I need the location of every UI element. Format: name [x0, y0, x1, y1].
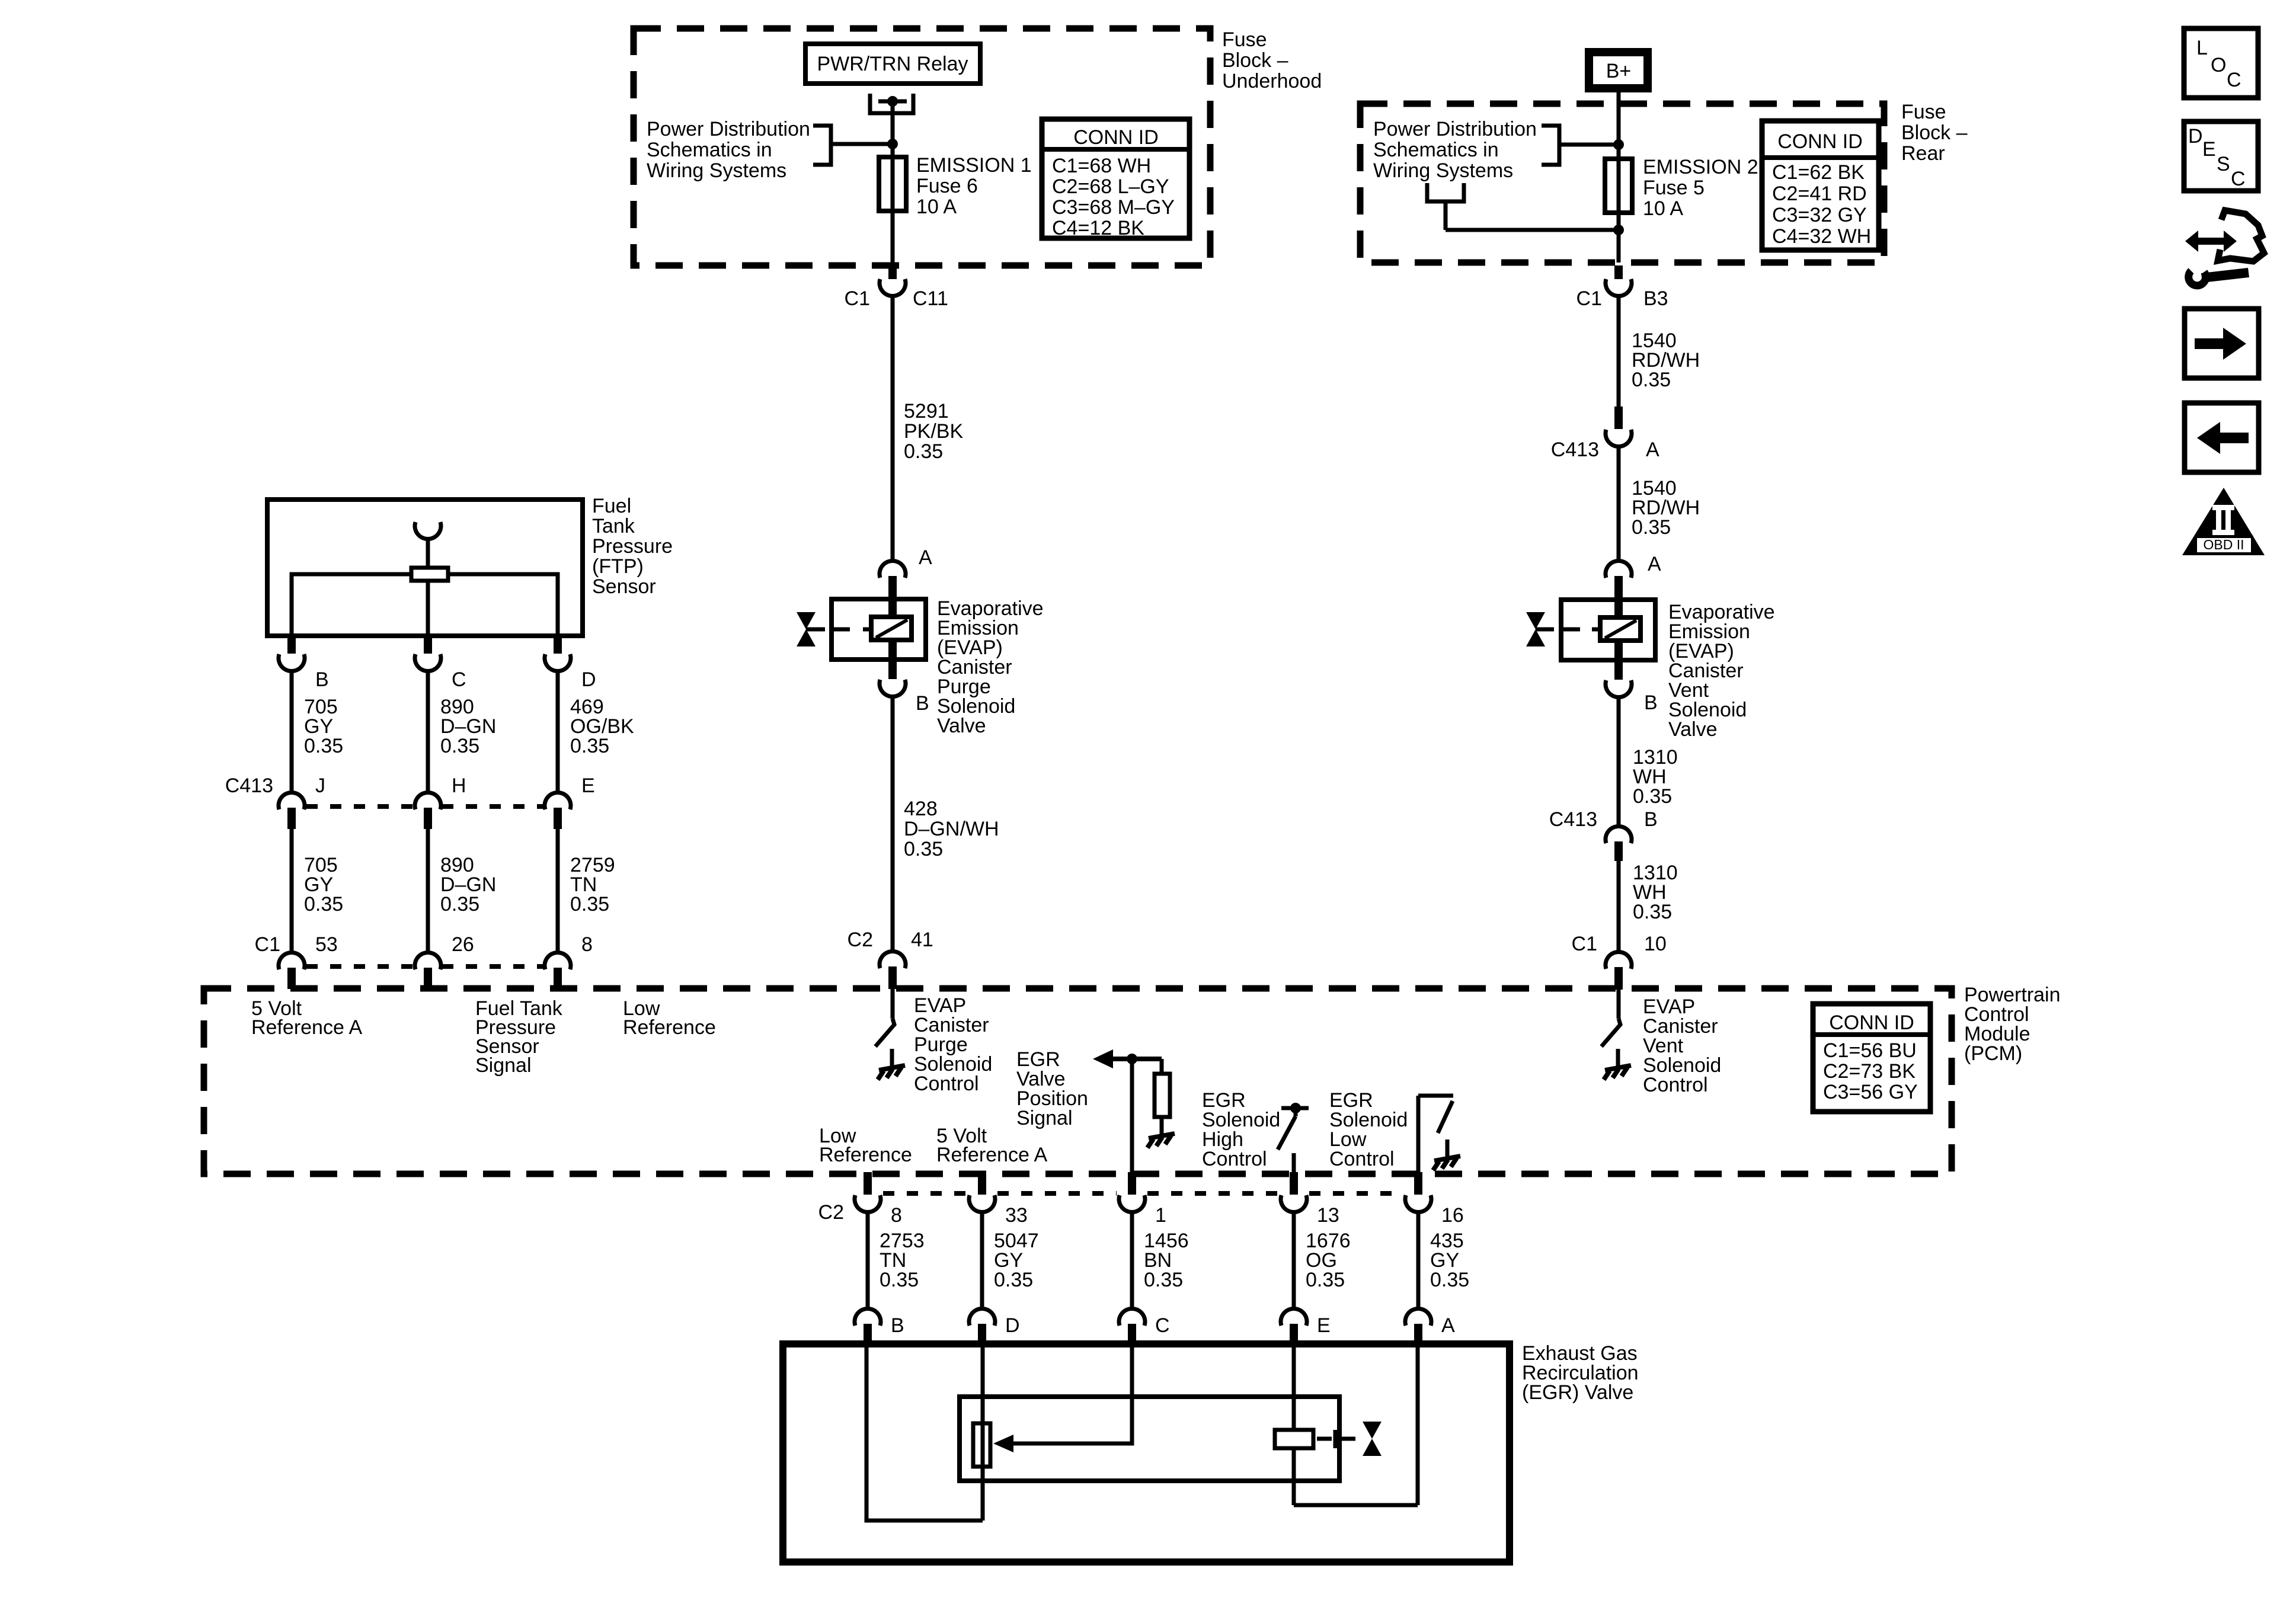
- svg-text:C1=56 BU: C1=56 BU: [1823, 1039, 1917, 1062]
- svg-text:EMISSION 2: EMISSION 2: [1643, 156, 1758, 178]
- wire 5047 GY: [980, 1212, 984, 1308]
- connector C1 B3 cup: [1606, 279, 1632, 296]
- FTP pin B cup: [279, 654, 305, 671]
- svg-text:Fuse 6: Fuse 6: [916, 175, 978, 197]
- purge valve coil stub top: [888, 599, 897, 618]
- svg-text:E: E: [581, 774, 595, 797]
- svg-text:C2=68 L–GY: C2=68 L–GY: [1052, 175, 1169, 198]
- EGR valve pin B stub: [864, 1324, 872, 1344]
- vent valve actuator dashes: [1562, 628, 1580, 632]
- C413 dashed link 2: [442, 804, 543, 809]
- wire lower bracket down: [1444, 201, 1448, 230]
- purge valve coil diagonal: [876, 620, 907, 638]
- vent control ground: [1616, 1049, 1620, 1067]
- svg-text:C2: C2: [818, 1201, 844, 1224]
- EGR valve pin E cup: [1281, 1308, 1307, 1326]
- purge valve coil stub bottom: [888, 639, 897, 661]
- svg-text:C4=32 WH: C4=32 WH: [1772, 225, 1871, 248]
- svg-text:Tank: Tank: [592, 515, 635, 537]
- svg-text:Pressure: Pressure: [592, 535, 673, 558]
- icon DESC box: [2184, 121, 2258, 191]
- wire EGR bottom link: [1294, 1503, 1418, 1507]
- PCM CONN ID header line: [1813, 1032, 1930, 1037]
- purge valve coil: [871, 617, 912, 640]
- svg-text:C413: C413: [1551, 438, 1599, 461]
- power distribution bracket left: [813, 126, 831, 165]
- connector C413 A cup: [1606, 430, 1632, 447]
- connector C1 C11 pin stub: [888, 265, 897, 279]
- node EGR high control dot: [1290, 1103, 1301, 1113]
- svg-text:O: O: [2211, 54, 2226, 76]
- vent valve actuator bowtie: [1526, 612, 1545, 629]
- EGR low control wire: [1416, 1096, 1421, 1174]
- EGR valve actuator tick: [1334, 1430, 1338, 1448]
- svg-text:0.35: 0.35: [1633, 785, 1672, 808]
- wire EGR pin B internal: [866, 1344, 983, 1521]
- relay terminal bar: [878, 100, 907, 104]
- EGR valve pin A cup: [1405, 1308, 1431, 1326]
- EGR valve actuator dashes: [1317, 1437, 1332, 1441]
- svg-text:Block –: Block –: [1901, 121, 1968, 144]
- svg-text:0.35: 0.35: [904, 440, 943, 463]
- svg-text:0.35: 0.35: [570, 893, 609, 916]
- connector C413 pin H cup: [415, 792, 441, 809]
- connector C2 pin 33 cup: [969, 1195, 995, 1212]
- C1 dashed link 2: [442, 964, 543, 969]
- svg-text:0.35: 0.35: [1632, 516, 1671, 539]
- svg-text:PK/BK: PK/BK: [904, 420, 963, 443]
- node junction dot right upper: [1613, 139, 1624, 150]
- wire EGR pin E internal: [1292, 1344, 1296, 1430]
- svg-text:E: E: [1317, 1314, 1331, 1337]
- EGR low control blade: [1438, 1101, 1453, 1133]
- FTP sensor box: [267, 500, 583, 636]
- connector C2 pin 13 stub: [1290, 1172, 1298, 1195]
- EGR valve pin C cup: [1119, 1308, 1145, 1326]
- svg-text:C1: C1: [845, 287, 870, 310]
- svg-text:B+: B+: [1606, 60, 1632, 82]
- wire through fuse 6: [891, 144, 895, 265]
- svg-text:Underhood: Underhood: [1222, 70, 1322, 92]
- svg-text:D: D: [2188, 125, 2203, 148]
- svg-text:Power Distribution: Power Distribution: [647, 118, 810, 140]
- svg-text:41: 41: [911, 929, 933, 951]
- svg-text:C1=62 BK: C1=62 BK: [1772, 161, 1865, 184]
- EGR valve pin C stub: [1128, 1324, 1136, 1344]
- svg-text:B: B: [916, 692, 929, 715]
- svg-text:0.35: 0.35: [1144, 1269, 1183, 1291]
- purge control switch blade: [875, 1019, 894, 1046]
- svg-text:C: C: [2227, 69, 2241, 91]
- connector C2 pin 16 stub: [1414, 1172, 1422, 1195]
- connector C2 pin 8 cup: [855, 1195, 881, 1212]
- svg-text:Reference A: Reference A: [936, 1144, 1047, 1166]
- svg-text:10 A: 10 A: [1643, 197, 1683, 220]
- wire EGR pin A internal: [1416, 1344, 1420, 1505]
- wire B+ to fuse 5: [1617, 92, 1621, 263]
- node junction dot left: [887, 139, 898, 149]
- EGR valve pin B cup: [855, 1308, 881, 1326]
- svg-text:Sensor: Sensor: [592, 575, 656, 598]
- svg-text:0.35: 0.35: [1633, 901, 1672, 923]
- svg-text:C413: C413: [1549, 808, 1597, 831]
- connector C1 C11 cup: [880, 279, 906, 296]
- wire 2759 TN lower: [556, 829, 560, 951]
- svg-text:0.35: 0.35: [304, 893, 343, 916]
- EGR low control top bar: [1418, 1094, 1453, 1098]
- wire bracket to junction right: [1559, 143, 1619, 147]
- svg-text:Wiring Systems: Wiring Systems: [647, 159, 786, 182]
- connector C1 pin 26 stub: [424, 968, 432, 989]
- icon back arrow: [2219, 433, 2249, 443]
- wire 890 D–GN upper: [426, 671, 430, 792]
- icon forward arrow: [2195, 338, 2224, 349]
- C1 dashed link 1: [306, 964, 413, 969]
- purge control ground: [890, 1049, 894, 1067]
- svg-text:1: 1: [1155, 1204, 1166, 1227]
- wire EGR position signal down: [1130, 1059, 1134, 1174]
- wire 705 GY lower: [290, 829, 294, 951]
- svg-text:Valve: Valve: [937, 715, 986, 737]
- icon diagnostic wrench: [2185, 231, 2237, 252]
- wire 469 OG/BK upper: [556, 671, 560, 792]
- svg-text:0.35: 0.35: [1306, 1269, 1345, 1291]
- EGR wiper arrow head: [993, 1435, 1013, 1452]
- svg-text:A: A: [919, 546, 932, 569]
- svg-text:C3=32 GY: C3=32 GY: [1772, 204, 1867, 226]
- svg-text:D: D: [581, 668, 596, 691]
- purge valve pin A stub: [888, 576, 897, 600]
- fuse block rear dashed enclosure: [1360, 104, 1884, 263]
- PWR/TRN Relay box: [805, 44, 980, 84]
- connector C1 pin 26 cup: [415, 952, 441, 969]
- svg-text:PWR/TRN Relay: PWR/TRN Relay: [817, 53, 968, 75]
- vent valve pin B stub: [1614, 660, 1623, 680]
- svg-text:C2=73 BK: C2=73 BK: [1823, 1060, 1916, 1083]
- FTP pin D cup: [545, 654, 571, 671]
- wire 5291 PK/BK: [891, 296, 895, 559]
- purge valve pin A cup: [880, 561, 906, 578]
- svg-text:5291: 5291: [904, 400, 949, 422]
- connector C2 pin 8 stub: [864, 1172, 872, 1195]
- EGR potentiometer: [973, 1423, 990, 1467]
- svg-text:0.35: 0.35: [440, 893, 479, 916]
- purge valve pin B stub: [888, 660, 897, 679]
- CONN ID table rear header line: [1762, 155, 1879, 160]
- FTP pin D stub: [554, 636, 562, 654]
- EGR low control ground: [1446, 1140, 1450, 1157]
- svg-text:A: A: [1648, 553, 1661, 575]
- C2 dashed link 3: [1147, 1191, 1278, 1196]
- svg-text:Fuse 5: Fuse 5: [1643, 177, 1705, 199]
- connector C413 B stub: [1614, 841, 1623, 861]
- svg-text:C1: C1: [1576, 287, 1602, 310]
- svg-text:(FTP): (FTP): [592, 555, 644, 578]
- svg-text:Wiring Systems: Wiring Systems: [1373, 159, 1513, 182]
- svg-text:A: A: [1441, 1314, 1455, 1337]
- connector C1 B3 stub: [1614, 265, 1623, 279]
- svg-text:13: 13: [1317, 1204, 1339, 1227]
- vent valve pin B cup: [1606, 680, 1632, 697]
- vent valve coil: [1600, 617, 1641, 641]
- vent valve coil stub bottom: [1614, 639, 1623, 661]
- svg-text:0.35: 0.35: [880, 1269, 919, 1291]
- svg-text:Signal: Signal: [475, 1054, 532, 1077]
- svg-text:S: S: [2217, 153, 2230, 175]
- svg-text:Control: Control: [1643, 1074, 1708, 1096]
- wire 435 GY: [1416, 1212, 1421, 1308]
- fuse block underhood dashed enclosure: [634, 28, 1210, 265]
- svg-text:0.35: 0.35: [904, 838, 943, 860]
- FTP internal wire center: [426, 581, 430, 636]
- svg-text:Schematics in: Schematics in: [1373, 139, 1499, 161]
- svg-text:E: E: [2202, 138, 2216, 161]
- connector C1 10 stub: [1614, 967, 1623, 990]
- EGR valve pin A stub: [1414, 1324, 1422, 1344]
- svg-text:C: C: [452, 668, 466, 691]
- EGR valve pin D cup: [969, 1308, 995, 1326]
- EGR high control blade: [1278, 1116, 1296, 1150]
- connector C2 pin 16 cup: [1405, 1195, 1431, 1212]
- node relay output dot: [887, 96, 898, 107]
- EVAP vent valve box: [1561, 600, 1655, 660]
- purge control wire: [891, 988, 895, 1019]
- connector C413 pin E stub: [554, 808, 562, 829]
- FTP pin B stub: [287, 636, 296, 654]
- svg-text:0.35: 0.35: [1430, 1269, 1469, 1291]
- svg-text:Control: Control: [1329, 1148, 1395, 1170]
- relay terminal bracket: [870, 94, 913, 113]
- connector C413 pin J stub: [287, 808, 296, 829]
- svg-text:Block –: Block –: [1222, 49, 1288, 72]
- wire 1540 RD/WH lower: [1617, 447, 1621, 559]
- purge valve actuator dashes: [832, 628, 850, 632]
- svg-text:10 A: 10 A: [916, 196, 957, 218]
- svg-text:16: 16: [1441, 1204, 1464, 1227]
- vent valve coil stub top: [1614, 600, 1623, 619]
- connector C1 10 cup: [1606, 952, 1632, 969]
- purge valve actuator bowtie: [797, 612, 816, 629]
- vent valve actuator waist bar: [1536, 628, 1554, 632]
- svg-text:CONN ID: CONN ID: [1777, 130, 1863, 153]
- svg-text:0.35: 0.35: [1632, 369, 1671, 391]
- svg-text:(EGR) Valve: (EGR) Valve: [1522, 1381, 1633, 1404]
- svg-text:EMISSION 1: EMISSION 1: [916, 154, 1032, 177]
- wire 1456 BN: [1130, 1212, 1134, 1308]
- wire 890 D–GN lower: [426, 829, 430, 951]
- connector C413 pin E cup: [545, 792, 571, 809]
- svg-text:0.35: 0.35: [440, 735, 479, 757]
- vent control switch blade: [1601, 1019, 1620, 1046]
- wire 1676 OG: [1292, 1212, 1296, 1308]
- svg-text:B: B: [891, 1314, 904, 1337]
- svg-text:Reference: Reference: [819, 1144, 912, 1166]
- EGR potentiometer enclosure: [960, 1397, 1339, 1481]
- connector C413 pin H stub: [424, 808, 432, 829]
- svg-text:A: A: [1646, 438, 1659, 461]
- connector C2 pin 1 stub: [1128, 1172, 1136, 1195]
- vent valve pin A stub: [1614, 576, 1623, 600]
- svg-text:0.35: 0.35: [994, 1269, 1033, 1291]
- C2 dashed link 2: [997, 1191, 1117, 1196]
- connector C1 pin 8 cup: [545, 952, 571, 969]
- svg-text:Reference A: Reference A: [251, 1016, 362, 1039]
- connector C1 pin 53 stub: [287, 968, 296, 989]
- EGR valve pin D stub: [978, 1324, 986, 1344]
- wire lower bracket to junction: [1446, 228, 1619, 232]
- svg-text:8: 8: [891, 1204, 902, 1227]
- FTP internal cup: [415, 522, 441, 539]
- svg-text:53: 53: [315, 933, 338, 956]
- C2 dashed link 4: [1309, 1191, 1403, 1196]
- CONN ID table underhood header line: [1042, 147, 1189, 152]
- wire 428 D-GN/WH: [891, 697, 895, 951]
- svg-text:Fuel: Fuel: [592, 495, 631, 517]
- svg-text:C: C: [1155, 1314, 1170, 1337]
- EGR position signal arrow line: [1109, 1057, 1162, 1061]
- svg-text:Control: Control: [914, 1073, 979, 1095]
- FTP internal wire left: [292, 574, 411, 636]
- power distribution lower bracket: [1427, 183, 1464, 201]
- connector C1 pin 53 cup: [279, 952, 305, 969]
- EGR position resistor leg: [1160, 1059, 1164, 1074]
- CONN ID table underhood frame: [1042, 119, 1189, 238]
- svg-text:OBD II: OBD II: [2203, 537, 2244, 552]
- wire 1540 RD/WH upper: [1617, 296, 1621, 406]
- svg-text:B: B: [1644, 692, 1658, 714]
- vent control wire: [1617, 988, 1621, 1019]
- EGR solenoid coil: [1275, 1430, 1313, 1448]
- svg-text:B: B: [315, 668, 329, 691]
- svg-text:Reference: Reference: [623, 1016, 716, 1039]
- EGR high control bar: [1281, 1106, 1309, 1110]
- purge valve pin B cup: [880, 680, 906, 697]
- svg-text:C1: C1: [255, 933, 280, 956]
- node junction dot right lower: [1613, 225, 1624, 235]
- svg-text:8: 8: [581, 933, 593, 956]
- C413 dashed link 1: [306, 804, 413, 809]
- svg-text:C3=56 GY: C3=56 GY: [1823, 1081, 1918, 1103]
- connector C1 pin 8 stub: [554, 968, 562, 989]
- svg-text:Control: Control: [1202, 1148, 1267, 1170]
- svg-text:B: B: [1644, 808, 1658, 831]
- fuse EMISSION 2 body: [1605, 159, 1632, 213]
- vent valve coil diagonal: [1605, 620, 1636, 638]
- wire EGR pin C internal: [1011, 1344, 1132, 1443]
- svg-text:Signal: Signal: [1016, 1107, 1073, 1129]
- svg-text:J: J: [315, 774, 325, 797]
- node EGR position dot: [1127, 1054, 1137, 1064]
- EGR valve actuator bowtie: [1363, 1422, 1382, 1439]
- fuse EMISSION 1 body: [879, 157, 906, 211]
- svg-text:C3=68 M–GY: C3=68 M–GY: [1052, 196, 1175, 219]
- vent valve pin A cup: [1606, 561, 1632, 578]
- connector C2 41 stub: [888, 966, 897, 989]
- connector C2 pin 33 stub: [978, 1172, 986, 1195]
- svg-text:C2=41 RD: C2=41 RD: [1772, 183, 1867, 205]
- wire 705 GY upper: [290, 671, 294, 792]
- svg-text:C413: C413: [225, 774, 273, 797]
- purge valve actuator waist bar: [806, 628, 825, 632]
- power distribution bracket right: [1542, 126, 1559, 165]
- svg-text:CONN ID: CONN ID: [1073, 126, 1159, 149]
- EGR position resistor ground: [1160, 1117, 1164, 1135]
- wire EGR pin D internal: [981, 1344, 985, 1521]
- PCM CONN ID table frame: [1813, 1004, 1930, 1112]
- svg-text:33: 33: [1005, 1204, 1028, 1227]
- connector C2 pin 1 cup: [1119, 1195, 1145, 1212]
- PCM dashed enclosure: [204, 988, 1952, 1174]
- svg-text:H: H: [452, 774, 466, 797]
- svg-text:Rear: Rear: [1901, 142, 1945, 165]
- icon forward arrow box: [2185, 309, 2259, 378]
- EGR valve pin E stub: [1290, 1324, 1298, 1344]
- EGR high control stub: [1294, 1108, 1298, 1116]
- EGR valve box: [783, 1344, 1510, 1562]
- icon LOC box: [2184, 28, 2258, 98]
- svg-text:C11: C11: [913, 287, 948, 310]
- connector C413 pin J cup: [279, 792, 305, 809]
- wire 1310 WH upper: [1617, 697, 1621, 826]
- svg-text:0.35: 0.35: [304, 735, 343, 757]
- CONN ID table rear frame: [1762, 121, 1879, 250]
- FTP pin C cup: [415, 654, 441, 671]
- wire 2753 TN: [866, 1212, 870, 1308]
- svg-text:Fuse: Fuse: [1222, 28, 1267, 51]
- svg-text:D: D: [1005, 1314, 1020, 1337]
- svg-text:L: L: [2196, 37, 2208, 59]
- svg-text:B3: B3: [1643, 287, 1668, 310]
- connector C2 41 cup: [880, 951, 906, 968]
- wire junction to power distribution bracket: [831, 142, 893, 146]
- svg-text:Valve: Valve: [1668, 718, 1718, 741]
- wire 1310 WH lower: [1617, 861, 1621, 952]
- C2 dashed link 1: [883, 1191, 967, 1196]
- svg-text:C4=12 BK: C4=12 BK: [1052, 217, 1144, 239]
- svg-text:C1: C1: [1572, 933, 1597, 955]
- svg-text:C2: C2: [848, 929, 873, 951]
- FTP internal wire right: [448, 574, 558, 636]
- connector C413 A stub: [1614, 406, 1623, 429]
- wire relay to junction: [891, 101, 895, 157]
- svg-text:428: 428: [904, 798, 938, 820]
- icon back arrow box: [2185, 403, 2259, 472]
- svg-text:Power Distribution: Power Distribution: [1373, 118, 1537, 140]
- svg-text:10: 10: [1644, 933, 1667, 955]
- FTP internal wire to element: [426, 539, 430, 568]
- svg-text:C1=68 WH: C1=68 WH: [1052, 155, 1151, 177]
- FTP sensing element: [411, 568, 448, 581]
- wire EGR coil to bottom: [1292, 1448, 1296, 1505]
- connector C413 B cup: [1606, 826, 1632, 843]
- svg-text:Fuse: Fuse: [1901, 101, 1946, 123]
- EGR position signal arrow head: [1093, 1049, 1113, 1068]
- svg-text:(PCM): (PCM): [1964, 1042, 2022, 1065]
- EGR high control wire: [1292, 1153, 1296, 1174]
- svg-text:Schematics in: Schematics in: [647, 139, 772, 161]
- connector C2 pin 13 cup: [1281, 1195, 1307, 1212]
- B+ power box: [1589, 52, 1648, 88]
- FTP pin C stub: [424, 636, 432, 654]
- svg-text:26: 26: [452, 933, 474, 956]
- svg-text:CONN ID: CONN ID: [1829, 1012, 1914, 1034]
- icon OBD II triangle: [2182, 488, 2265, 555]
- EVAP purge valve box: [832, 599, 926, 660]
- EGR position resistor: [1155, 1074, 1170, 1117]
- svg-text:C: C: [2231, 168, 2246, 190]
- svg-text:D–GN/WH: D–GN/WH: [904, 818, 999, 840]
- svg-text:0.35: 0.35: [570, 735, 609, 757]
